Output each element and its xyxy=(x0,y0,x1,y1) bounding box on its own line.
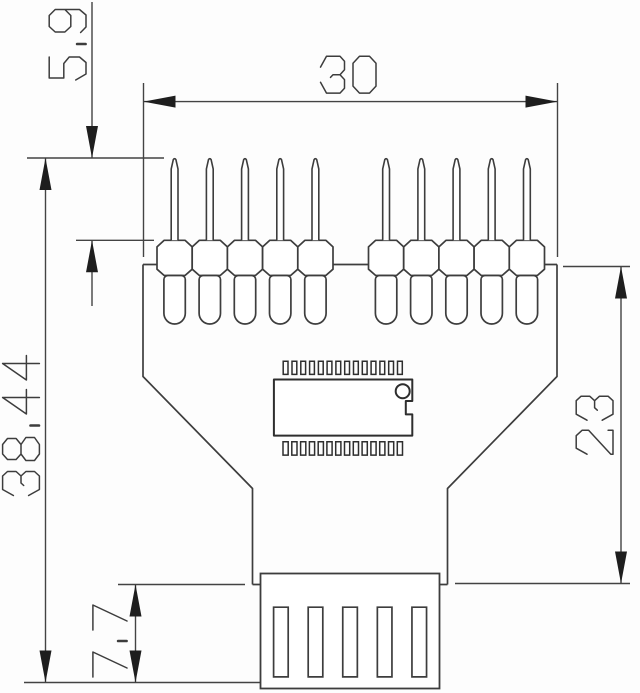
pin 2 needle xyxy=(206,159,213,241)
dimension text 38.44 (rotated) xyxy=(3,356,40,496)
dimension 5.9 upper leader line xyxy=(91,2,93,158)
pin 8 tail xyxy=(446,276,467,325)
dimension 30 left arrow xyxy=(144,96,176,108)
dimension 38.44 bottom arrow (down) xyxy=(40,651,52,683)
pin 1 needle xyxy=(171,159,178,241)
pin 6 housing xyxy=(369,240,404,275)
dimension text 30 xyxy=(321,56,377,93)
pin 9 housing xyxy=(474,240,509,275)
extension line bottom baseline y=682.5 xyxy=(24,682,261,684)
dimension 23 top arrow (up) xyxy=(615,267,627,299)
extension line neck-bottom level y=584.5 xyxy=(118,584,245,586)
dimension 38.44 line xyxy=(45,158,47,683)
USB connector shell xyxy=(261,574,440,689)
pin 10 tail xyxy=(516,276,537,324)
IC U1 pin-1 marker circle xyxy=(396,384,410,398)
body left edge and taper xyxy=(143,265,253,585)
extension line 30 left x=143.5 xyxy=(143,83,145,257)
USB connector slots (5) xyxy=(274,607,427,677)
dimension text 5.9 (rotated) xyxy=(49,10,86,81)
pin 10 housing xyxy=(509,240,544,275)
pin 3 needle xyxy=(242,159,249,241)
extension line 23 top y=266.5 xyxy=(563,266,630,268)
dimension 7.7 line xyxy=(135,585,137,683)
dimension 5.9 lower leader line xyxy=(91,240,93,306)
dimension 7.7 top arrow (up) xyxy=(130,585,142,617)
IC U1 body with notch xyxy=(274,380,412,436)
pin 7 tail xyxy=(411,276,432,324)
pin 2 tail xyxy=(199,276,220,324)
extension line at housing-top level y=240 xyxy=(76,239,154,241)
pin 5 needle xyxy=(312,159,319,241)
pin 4 housing xyxy=(263,240,298,275)
dimension 5.9 upper arrow (down) xyxy=(86,126,98,158)
pin 1 housing xyxy=(157,240,192,275)
pin 2 housing xyxy=(192,240,227,275)
dimension 23 line xyxy=(620,267,622,584)
pin 1 tail xyxy=(164,276,185,325)
dimension text 7.7 (rotated) xyxy=(93,605,127,677)
pin 4 tail xyxy=(270,276,291,324)
extension line 23 bottom y=583.5 xyxy=(455,583,630,585)
IC U1 top pad row (14 pads) xyxy=(283,361,402,374)
dimension 38.44 top arrow (up) xyxy=(40,158,52,190)
pin 8 needle xyxy=(453,159,460,241)
IC U1 bottom pad row (14 pads) xyxy=(283,442,403,455)
extension line 30 right x=557.5 xyxy=(557,83,559,257)
dimension 23 bottom arrow (down) xyxy=(615,552,627,584)
pin 9 tail xyxy=(481,276,502,324)
dimension 7.7 bottom arrow (down) xyxy=(130,651,142,683)
body top edge xyxy=(143,264,557,266)
pin 6 tail xyxy=(375,276,396,324)
dimension 30 right arrow xyxy=(526,96,558,108)
pin 7 needle xyxy=(418,159,425,241)
body right edge and taper xyxy=(448,265,558,585)
pin 5 tail xyxy=(305,276,326,324)
pin 10 needle xyxy=(524,159,531,241)
pin 8 housing xyxy=(439,240,474,275)
pin 3 tail xyxy=(234,276,255,324)
pin 4 needle xyxy=(277,159,284,241)
dimension text 23 (rotated) xyxy=(576,396,613,454)
pin 7 housing xyxy=(404,240,439,275)
body bottom edge (neck) xyxy=(253,584,448,586)
dimension 30 line xyxy=(144,101,558,103)
pin 3 housing xyxy=(227,240,262,275)
extension line at pin-tip level y=158 xyxy=(27,157,164,159)
pin 6 needle xyxy=(383,159,390,241)
pin 9 needle xyxy=(488,159,495,241)
pin 5 housing xyxy=(298,240,333,275)
dimension 5.9 lower arrow (up) xyxy=(86,240,98,272)
